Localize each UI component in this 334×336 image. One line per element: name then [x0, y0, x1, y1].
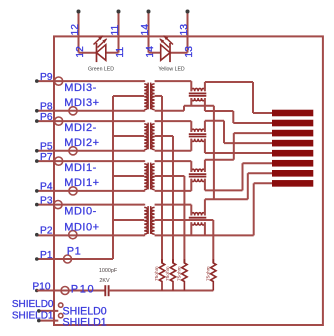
svg-text:75ohm: 75ohm — [154, 266, 160, 281]
svg-text:P9: P9 — [40, 72, 53, 83]
pin P3 circle — [54, 201, 62, 209]
pin number 14 (net label) — [140, 24, 151, 36]
resistor R2 75ohm — [170, 259, 175, 291]
capacitor C1 1000pF 2KV — [105, 285, 108, 296]
svg-text:SHIELD1: SHIELD1 — [12, 311, 54, 322]
pin SHIELD0 circle — [59, 303, 63, 307]
pin P9 circle — [55, 77, 63, 85]
net label P10 — [32, 281, 50, 292]
node LED pin 12 end — [77, 10, 81, 14]
wire T3 primary center tap — [113, 135, 144, 137]
pin number 13 (net label) — [179, 24, 190, 36]
label R4 value 75ohm — [206, 266, 212, 281]
node LED pin 14 end — [147, 10, 151, 14]
svg-text:MDI1+: MDI1+ — [64, 177, 99, 189]
wire P8 to T4 primary bottom — [37, 110, 144, 112]
node P4 wire end — [35, 189, 39, 193]
pin name MDI2- — [64, 122, 96, 134]
wire choke L2 top to contact 3 — [205, 133, 272, 172]
wire T1 secondary bottom long run to contact 8 — [155, 183, 272, 235]
svg-text:MDI2+: MDI2+ — [64, 137, 99, 149]
contact pad 7 — [272, 170, 313, 177]
node SHIELD0 wire end — [37, 309, 41, 313]
resistor R1 75ohm — [159, 259, 164, 291]
node P9 wire end — [35, 79, 39, 83]
pin name MDI0+ — [64, 222, 99, 234]
wire choke L4 top to contact 1 — [205, 82, 272, 113]
pin SHIELD1 circle — [59, 313, 63, 317]
wire T2 secondary center tap to R3 — [155, 176, 185, 263]
wire P6 to T3 primary top — [37, 120, 144, 122]
pin number 11 (inside) — [115, 47, 126, 58]
pin P1 circle — [64, 255, 72, 263]
wire P3 to T1 primary top — [37, 204, 144, 206]
label R3 value 75ohm — [177, 266, 183, 281]
node P1 wire end — [35, 257, 39, 261]
wire LED pin 14 stub — [148, 12, 150, 53]
node P8 wire end — [35, 109, 39, 113]
wire center-tap bus to P1 — [37, 96, 113, 259]
wire P7 to T2 primary top — [37, 160, 144, 162]
node P6 wire end — [35, 119, 39, 123]
wire P2 to T1 primary bottom — [37, 234, 144, 236]
net label P9 — [40, 72, 53, 83]
svg-text:P10: P10 — [71, 284, 95, 296]
pin number 12 (net label) — [70, 24, 81, 36]
label C1 value 1000pF — [99, 268, 118, 274]
node LED pin 13 end — [186, 10, 190, 14]
svg-text:MDI0+: MDI0+ — [64, 222, 99, 234]
node P2 wire end — [35, 233, 39, 237]
contact pad 2 — [272, 120, 313, 127]
wire choke L2 bottom to contact 6 — [205, 163, 272, 190]
wire T4 secondary top to choke L4 — [155, 81, 192, 91]
svg-text:14: 14 — [140, 24, 151, 36]
wire T2 primary center tap — [113, 175, 144, 177]
wire termination rail — [109, 290, 214, 292]
svg-text:MDI2-: MDI2- — [64, 122, 96, 134]
svg-text:MDI3+: MDI3+ — [64, 97, 99, 109]
choke L4 (MDI3) — [189, 88, 207, 100]
pin P5 circle — [69, 147, 77, 155]
svg-text:Green LED: Green LED — [88, 67, 114, 73]
pin name MDI1+ — [64, 177, 99, 189]
pin number 14 (inside) — [145, 46, 156, 58]
pin P8 circle — [69, 107, 77, 115]
wire T3 secondary bottom to choke L3 bottom — [155, 139, 192, 151]
wire T1 secondary center tap to R4 — [155, 220, 214, 263]
svg-text:75ohm: 75ohm — [165, 266, 171, 281]
svg-text:P3: P3 — [40, 195, 53, 206]
svg-text:P1: P1 — [67, 246, 81, 258]
wire T2 secondary top to choke L2 — [155, 161, 192, 172]
wire choke L3 top to contact 4 — [205, 121, 272, 143]
svg-text:MDI0-: MDI0- — [64, 205, 96, 217]
node P10 wire end — [35, 289, 39, 293]
transformer T4 (MDI3) — [143, 81, 154, 111]
pin name SHIELD1 — [63, 317, 107, 329]
wire choke L3 bottom to contact 5 — [205, 139, 272, 153]
net label SHIELD0 — [12, 299, 54, 310]
pin name MDI1- — [64, 162, 96, 174]
net label P1 — [40, 250, 53, 261]
pin name MDI3- — [64, 82, 96, 94]
label R1 value 75ohm — [154, 266, 160, 281]
pin name MDI3+ — [64, 97, 99, 109]
contact pad 3 — [272, 130, 313, 137]
wire T2 secondary bottom to choke L2 bottom — [155, 179, 192, 191]
transformer T3 (MDI2) — [143, 121, 154, 151]
pin name SHIELD0 — [63, 306, 107, 318]
contact pad 1 — [272, 110, 313, 117]
pin P2 circle — [69, 231, 77, 239]
choke L1 (MDI0) — [189, 213, 207, 225]
svg-text:MDI1-: MDI1- — [64, 162, 96, 174]
svg-text:MDI3-: MDI3- — [64, 82, 96, 94]
net label P5 — [40, 142, 53, 153]
resistor R3 75ohm — [182, 259, 187, 291]
net label P8 — [40, 102, 53, 113]
wire P9 to T4 primary top — [37, 80, 144, 82]
transformer T2 (MDI1) — [143, 161, 154, 191]
svg-text:P6: P6 — [40, 112, 53, 123]
svg-text:12: 12 — [70, 24, 81, 36]
node LED pin 11 end — [117, 10, 121, 14]
svg-text:2KV: 2KV — [99, 278, 110, 284]
svg-text:75ohm: 75ohm — [177, 266, 183, 281]
contact pad 8 — [272, 180, 313, 187]
svg-text:P2: P2 — [40, 226, 53, 237]
node P5 wire end — [35, 149, 39, 153]
pin name P10 — [71, 284, 95, 296]
LED D2 Yellow LED — [149, 35, 188, 72]
contact pad 6 — [272, 160, 313, 167]
pin number 12 (inside) — [75, 46, 86, 58]
choke L3 (MDI2) — [189, 129, 207, 141]
svg-text:SHIELD0: SHIELD0 — [12, 299, 54, 310]
svg-text:P4: P4 — [40, 182, 53, 193]
pin P6 circle — [55, 117, 63, 125]
wire P10 to capacitor — [37, 290, 106, 292]
wire T1 primary center tap — [113, 219, 144, 221]
wire T1 secondary top to choke L1 — [155, 205, 192, 216]
wire LED pin 12 stub — [78, 12, 80, 53]
wire node V3 descent to MDI0 choke net — [213, 106, 215, 200]
net label P4 — [40, 182, 53, 193]
LED D1 Green LED — [79, 35, 119, 72]
contact pad 5 — [272, 150, 313, 157]
net label P2 — [40, 226, 53, 237]
wire T3 secondary center tap to R2 — [155, 136, 173, 263]
wire T4 secondary bottom to choke L4 bottom — [155, 98, 214, 111]
resistor R4 75ohm — [211, 259, 216, 291]
net label P6 — [40, 112, 53, 123]
wire LED pin 13 stub — [187, 12, 189, 53]
svg-text:75ohm: 75ohm — [206, 266, 212, 281]
node P7 wire end — [35, 159, 39, 163]
pin name MDI0- — [64, 205, 96, 217]
pin number 13 (inside) — [184, 46, 195, 58]
svg-text:Yellow LED: Yellow LED — [158, 67, 185, 73]
wire LED pin 11 stub — [118, 12, 120, 53]
pin P7 circle — [55, 157, 63, 165]
wire choke L1 top to contact 7 — [205, 173, 272, 215]
wire choke L4 bottom to contact 2 — [205, 98, 272, 123]
pin number 11 (net label) — [110, 24, 121, 35]
RJ45 jack body outline J1 — [54, 36, 323, 325]
wire T4 secondary center tap to R1 — [155, 96, 162, 263]
node SHIELD1 wire end — [37, 319, 41, 323]
svg-text:P1: P1 — [40, 250, 53, 261]
net label P3 — [40, 195, 53, 206]
pin name P1 — [67, 246, 81, 258]
net label P7 — [40, 152, 53, 163]
svg-text:P7: P7 — [40, 152, 53, 163]
contact pad 4 — [272, 140, 313, 147]
svg-text:13: 13 — [179, 24, 190, 36]
label C1 rating 2KV — [99, 278, 110, 284]
net label SHIELD1 — [12, 311, 54, 322]
svg-text:11: 11 — [110, 24, 121, 35]
wire P5 to T3 primary bottom — [37, 150, 144, 152]
wire SHIELD0 stub — [39, 310, 59, 312]
svg-text:1000pF: 1000pF — [99, 268, 118, 274]
pin name MDI2+ — [64, 137, 99, 149]
label R2 value 75ohm — [165, 266, 171, 281]
pin P10 circle — [61, 287, 69, 295]
wire T4 primary center tap — [113, 95, 144, 97]
wire T3 secondary top to choke L3 — [155, 121, 192, 132]
node P3 wire end — [35, 203, 39, 207]
transformer T1 (MDI0) — [143, 205, 154, 236]
pin P4 circle — [69, 187, 77, 195]
wire P4 to T2 primary bottom — [37, 190, 144, 192]
svg-text:SHIELD1: SHIELD1 — [63, 317, 107, 329]
wire SHIELD1 stub — [39, 320, 59, 322]
choke L2 (MDI1) — [189, 169, 207, 181]
